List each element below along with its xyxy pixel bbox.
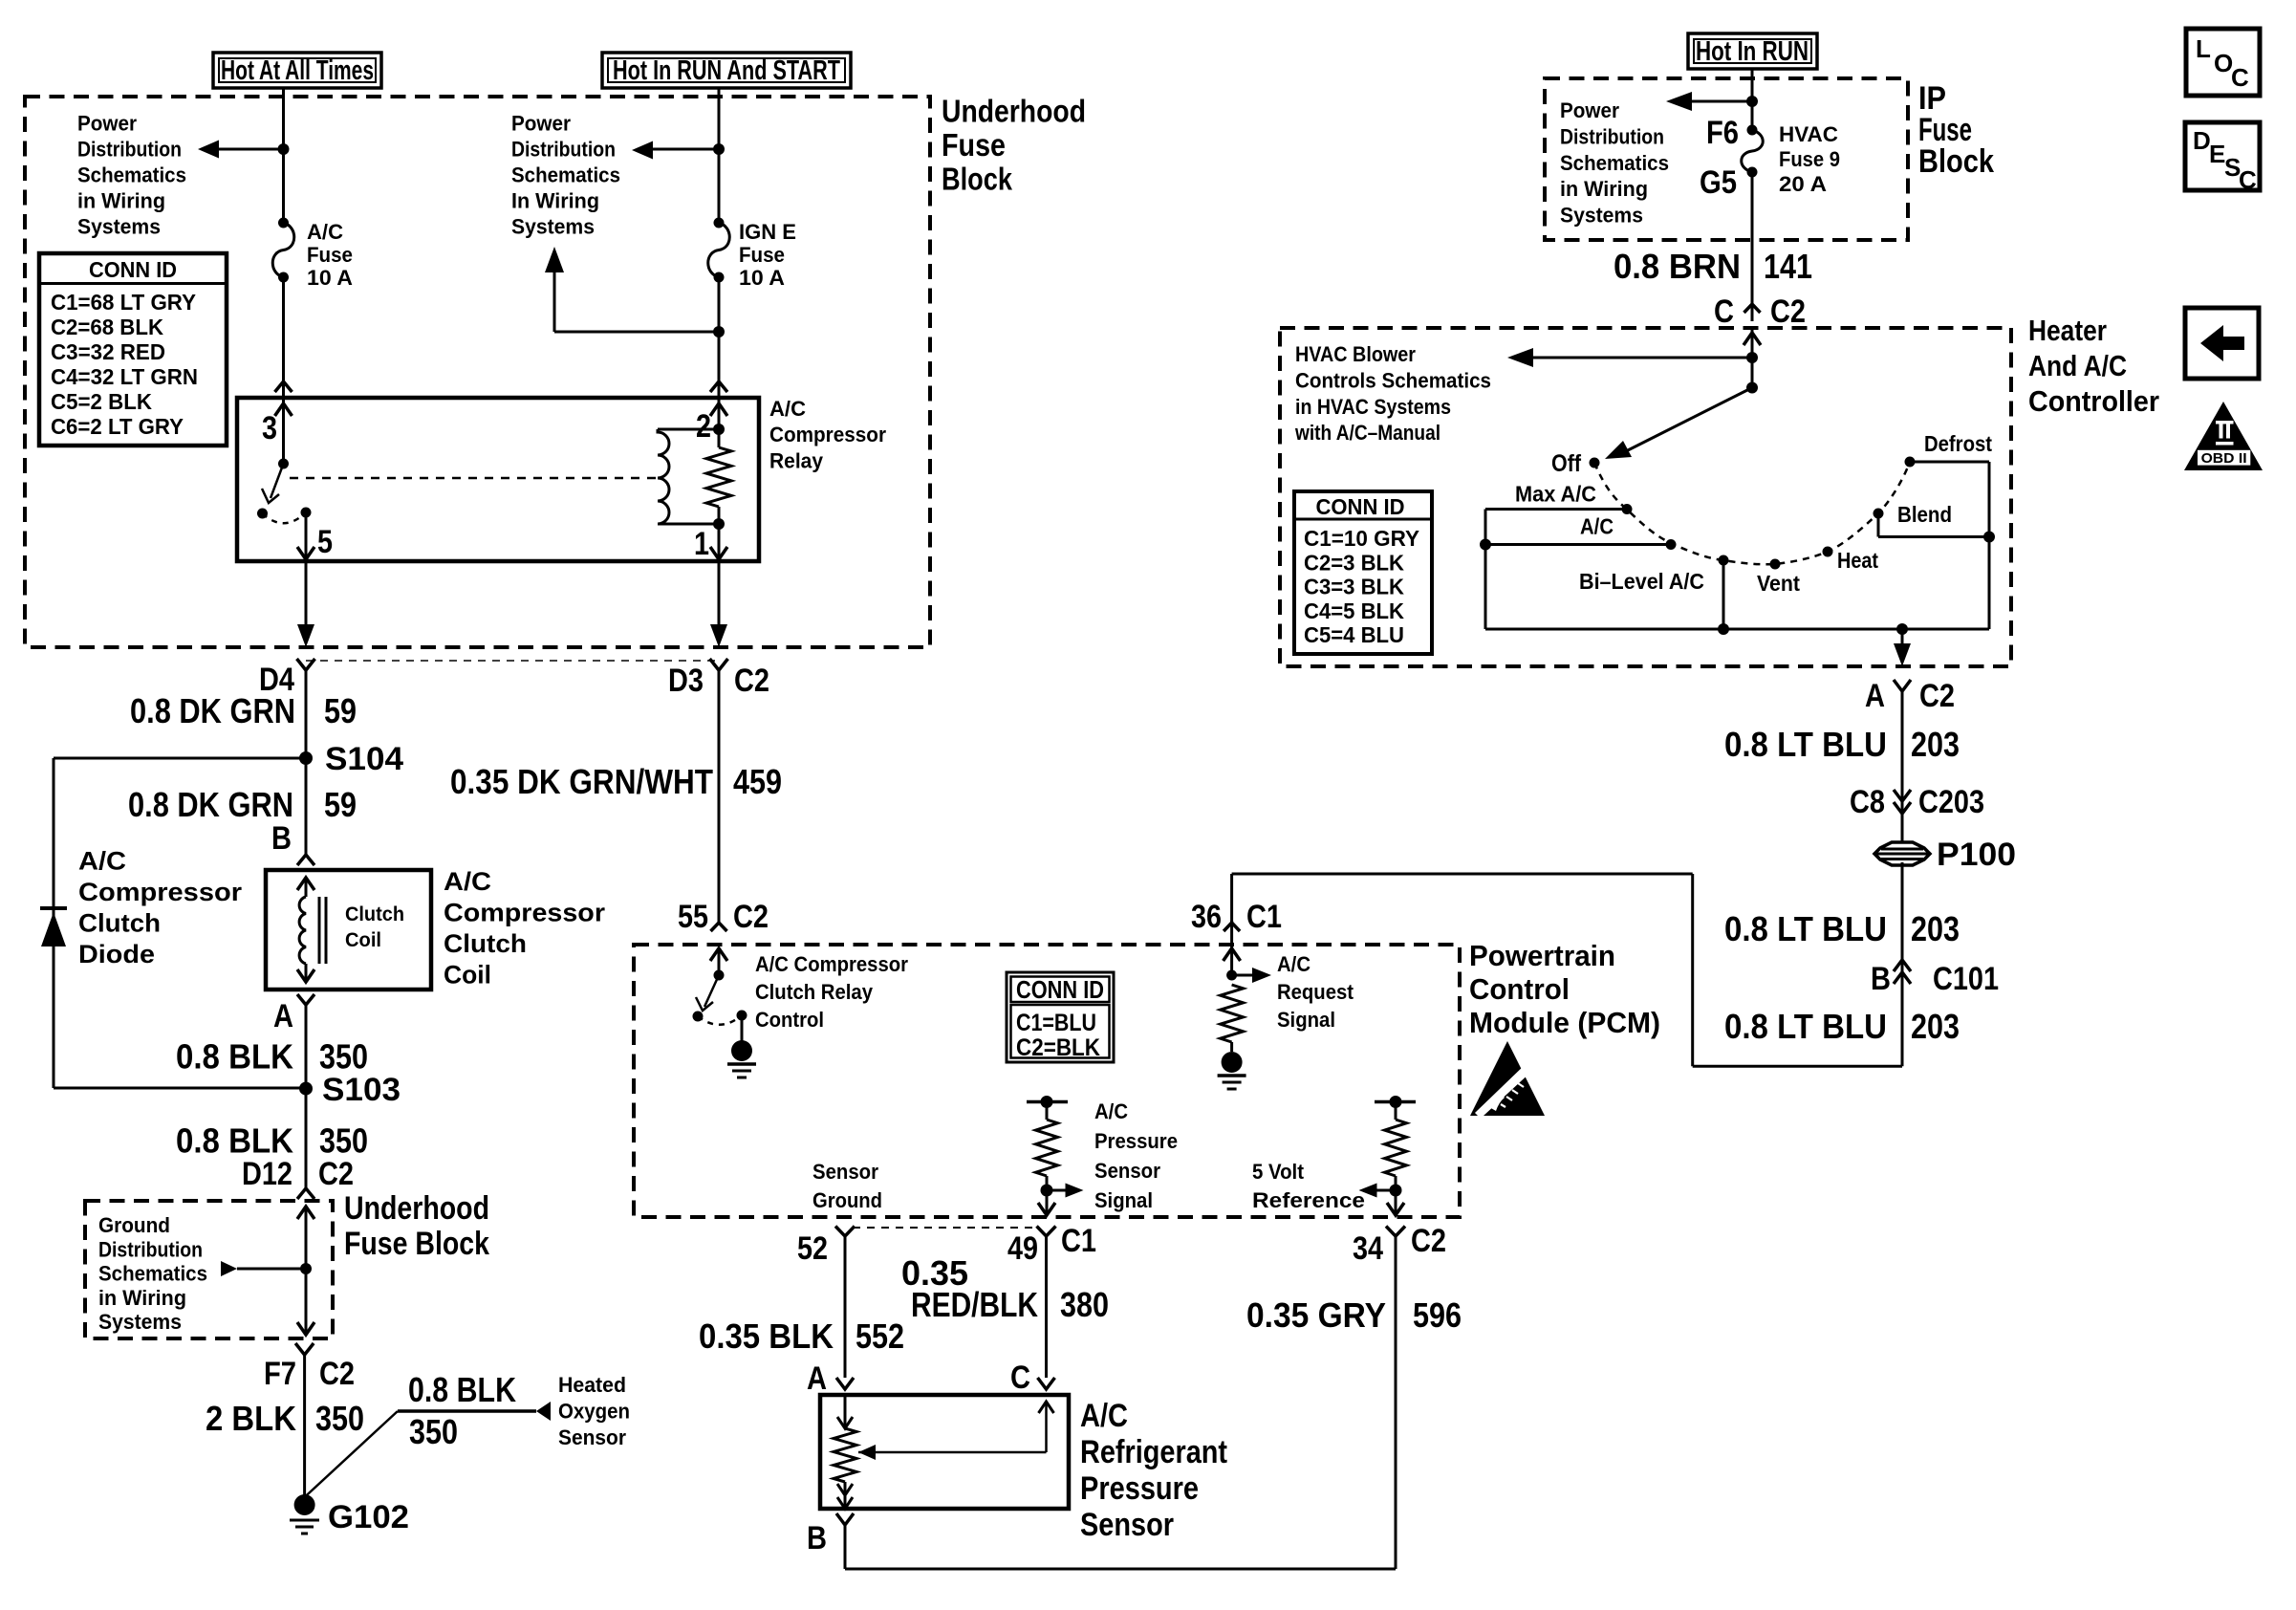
svg-text:10 A: 10 A bbox=[739, 266, 785, 290]
svg-text:C3=32 RED: C3=32 RED bbox=[51, 339, 165, 364]
svg-text:Block: Block bbox=[1918, 143, 1994, 180]
svg-text:Control: Control bbox=[1469, 972, 1570, 1006]
svg-text:Defrost: Defrost bbox=[1924, 431, 1992, 456]
svg-text:Clutch: Clutch bbox=[444, 929, 527, 958]
svg-text:Clutch: Clutch bbox=[345, 903, 404, 925]
svg-text:Vent: Vent bbox=[1757, 571, 1800, 596]
svg-text:Control: Control bbox=[755, 1008, 824, 1032]
svg-text:Pressure: Pressure bbox=[1080, 1470, 1199, 1507]
svg-text:59: 59 bbox=[324, 785, 357, 824]
svg-text:C2: C2 bbox=[318, 1156, 354, 1192]
svg-text:B: B bbox=[807, 1520, 827, 1556]
svg-text:CONN ID: CONN ID bbox=[1316, 494, 1405, 519]
svg-text:Systems: Systems bbox=[77, 215, 161, 239]
svg-text:459: 459 bbox=[733, 762, 782, 801]
svg-text:Schematics: Schematics bbox=[511, 163, 620, 187]
svg-text:L: L bbox=[2196, 34, 2211, 63]
svg-text:Distribution: Distribution bbox=[98, 1237, 203, 1261]
svg-text:Heated: Heated bbox=[558, 1373, 626, 1397]
svg-text:Coil: Coil bbox=[345, 929, 381, 951]
svg-text:B: B bbox=[1871, 961, 1891, 997]
svg-text:Schematics: Schematics bbox=[1560, 151, 1669, 175]
svg-text:Clutch: Clutch bbox=[78, 909, 161, 938]
svg-text:C1=68 LT GRY: C1=68 LT GRY bbox=[51, 290, 196, 315]
svg-text:Block: Block bbox=[942, 162, 1013, 197]
svg-text:C6=2 LT GRY: C6=2 LT GRY bbox=[51, 414, 184, 439]
svg-text:RED/BLK: RED/BLK bbox=[911, 1285, 1038, 1324]
svg-text:in Wiring: in Wiring bbox=[77, 189, 165, 213]
svg-text:C5=2 BLK: C5=2 BLK bbox=[51, 389, 152, 414]
svg-text:Fuse: Fuse bbox=[739, 243, 785, 267]
svg-text:OBD II: OBD II bbox=[2201, 450, 2247, 467]
svg-text:C8: C8 bbox=[1850, 784, 1885, 820]
svg-text:A/C: A/C bbox=[444, 867, 491, 896]
svg-text:Fuse 9: Fuse 9 bbox=[1779, 147, 1840, 171]
svg-text:Fuse: Fuse bbox=[942, 127, 1006, 163]
svg-text:In Wiring: In Wiring bbox=[511, 189, 599, 213]
svg-text:Underhood: Underhood bbox=[942, 94, 1086, 129]
svg-text:A/C: A/C bbox=[769, 397, 806, 421]
svg-text:C1: C1 bbox=[1246, 899, 1282, 935]
svg-text:Compressor: Compressor bbox=[769, 423, 886, 446]
svg-text:20 A: 20 A bbox=[1779, 172, 1827, 196]
svg-text:G5: G5 bbox=[1700, 164, 1737, 201]
svg-text:C: C bbox=[1714, 294, 1734, 330]
svg-text:52: 52 bbox=[797, 1230, 828, 1267]
svg-text:2: 2 bbox=[696, 408, 711, 445]
svg-text:0.8 DK GRN: 0.8 DK GRN bbox=[128, 785, 293, 824]
svg-text:0.8 BLK: 0.8 BLK bbox=[176, 1037, 293, 1077]
svg-text:in Wiring: in Wiring bbox=[98, 1286, 186, 1310]
svg-text:A/C: A/C bbox=[1080, 1398, 1128, 1434]
svg-text:D3: D3 bbox=[668, 663, 704, 699]
svg-text:Schematics: Schematics bbox=[98, 1262, 207, 1286]
svg-text:Coil: Coil bbox=[444, 961, 491, 990]
svg-text:HVAC: HVAC bbox=[1779, 122, 1838, 146]
svg-text:552: 552 bbox=[856, 1316, 904, 1356]
svg-text:Reference: Reference bbox=[1252, 1188, 1365, 1212]
svg-text:D12: D12 bbox=[242, 1156, 292, 1192]
svg-text:A: A bbox=[807, 1360, 827, 1397]
svg-text:A/C Compressor: A/C Compressor bbox=[755, 952, 908, 976]
svg-text:E: E bbox=[2209, 140, 2225, 168]
svg-text:Clutch Relay: Clutch Relay bbox=[755, 980, 874, 1004]
svg-text:Hot At All Times: Hot At All Times bbox=[221, 55, 374, 86]
svg-text:49: 49 bbox=[1007, 1230, 1038, 1267]
svg-text:G102: G102 bbox=[328, 1499, 409, 1535]
svg-text:C203: C203 bbox=[1918, 784, 1984, 820]
svg-text:C4=32 LT GRN: C4=32 LT GRN bbox=[51, 364, 198, 389]
svg-text:0.8 BLK: 0.8 BLK bbox=[408, 1370, 516, 1409]
svg-text:Ground: Ground bbox=[812, 1188, 882, 1212]
svg-text:0.35 BLK: 0.35 BLK bbox=[699, 1316, 834, 1356]
svg-text:0.8 LT BLU: 0.8 LT BLU bbox=[1724, 725, 1887, 764]
svg-text:Blend: Blend bbox=[1897, 502, 1952, 527]
svg-text:380: 380 bbox=[1060, 1285, 1109, 1324]
svg-text:CONN ID: CONN ID bbox=[1016, 975, 1104, 1004]
svg-text:Ground: Ground bbox=[98, 1213, 170, 1237]
svg-text:S103: S103 bbox=[322, 1072, 401, 1108]
svg-text:Fuse: Fuse bbox=[307, 243, 353, 267]
svg-text:Fuse Block: Fuse Block bbox=[344, 1226, 489, 1262]
svg-text:C2=3 BLK: C2=3 BLK bbox=[1304, 550, 1404, 575]
svg-text:F7: F7 bbox=[264, 1356, 296, 1392]
svg-text:P100: P100 bbox=[1937, 837, 2016, 873]
svg-text:A/C: A/C bbox=[78, 847, 126, 876]
svg-text:C1=10 GRY: C1=10 GRY bbox=[1304, 526, 1419, 551]
svg-text:0.35 DK GRN/WHT: 0.35 DK GRN/WHT bbox=[450, 762, 713, 801]
svg-text:5: 5 bbox=[317, 524, 333, 560]
svg-text:CONN ID: CONN ID bbox=[89, 257, 177, 282]
svg-text:D: D bbox=[2193, 126, 2211, 155]
svg-text:C2: C2 bbox=[1770, 294, 1806, 330]
svg-text:Sensor: Sensor bbox=[1080, 1507, 1174, 1543]
svg-text:C2: C2 bbox=[734, 663, 769, 699]
svg-text:Systems: Systems bbox=[1560, 204, 1643, 228]
svg-text:Distribution: Distribution bbox=[77, 138, 182, 162]
svg-text:B: B bbox=[271, 820, 292, 857]
svg-text:350: 350 bbox=[315, 1399, 364, 1438]
svg-text:in HVAC Systems: in HVAC Systems bbox=[1295, 395, 1451, 419]
svg-text:0.8 DK GRN: 0.8 DK GRN bbox=[130, 691, 295, 730]
svg-text:1: 1 bbox=[694, 526, 709, 562]
svg-text:Distribution: Distribution bbox=[511, 138, 616, 162]
svg-text:C2: C2 bbox=[1411, 1223, 1446, 1259]
svg-text:Systems: Systems bbox=[98, 1310, 182, 1334]
svg-text:Pressure: Pressure bbox=[1094, 1129, 1178, 1153]
svg-text:F6: F6 bbox=[1706, 115, 1739, 151]
svg-text:IGN E: IGN E bbox=[739, 220, 796, 244]
svg-text:203: 203 bbox=[1911, 1007, 1960, 1046]
svg-text:141: 141 bbox=[1764, 247, 1812, 286]
svg-text:C: C bbox=[1010, 1360, 1030, 1396]
svg-text:C2=BLK: C2=BLK bbox=[1016, 1034, 1100, 1061]
svg-text:Schematics: Schematics bbox=[77, 163, 186, 187]
svg-text:Request: Request bbox=[1277, 980, 1354, 1004]
svg-text:A: A bbox=[1865, 678, 1885, 714]
svg-text:C1=BLU: C1=BLU bbox=[1016, 1010, 1096, 1036]
svg-text:Controller: Controller bbox=[2028, 384, 2159, 418]
svg-text:Sensor: Sensor bbox=[1094, 1159, 1160, 1183]
svg-text:Signal: Signal bbox=[1277, 1008, 1335, 1032]
svg-text:Sensor: Sensor bbox=[558, 1425, 626, 1449]
svg-text:C3=3 BLK: C3=3 BLK bbox=[1304, 575, 1404, 599]
svg-text:Module (PCM): Module (PCM) bbox=[1469, 1006, 1660, 1039]
svg-text:in Wiring: in Wiring bbox=[1560, 177, 1648, 201]
svg-text:Power: Power bbox=[77, 112, 137, 136]
svg-text:350: 350 bbox=[319, 1121, 368, 1161]
svg-text:C5=4 BLU: C5=4 BLU bbox=[1304, 622, 1404, 647]
svg-text:5 Volt: 5 Volt bbox=[1252, 1160, 1305, 1184]
svg-text:C4=5 BLK: C4=5 BLK bbox=[1304, 598, 1404, 623]
svg-text:0.8 LT BLU: 0.8 LT BLU bbox=[1724, 909, 1887, 948]
svg-text:0.8 BLK: 0.8 BLK bbox=[176, 1121, 293, 1161]
svg-text:203: 203 bbox=[1911, 725, 1960, 764]
svg-text:A/C: A/C bbox=[1094, 1099, 1128, 1123]
svg-text:Bi–Level A/C: Bi–Level A/C bbox=[1579, 569, 1704, 594]
svg-text:A/C: A/C bbox=[307, 220, 343, 244]
svg-text:Hot In RUN: Hot In RUN bbox=[1696, 36, 1809, 67]
svg-text:2 BLK: 2 BLK bbox=[206, 1399, 296, 1438]
svg-text:C101: C101 bbox=[1933, 961, 1999, 997]
svg-text:HVAC Blower: HVAC Blower bbox=[1295, 342, 1416, 366]
svg-text:with A/C–Manual: with A/C–Manual bbox=[1294, 421, 1440, 445]
svg-text:A: A bbox=[273, 998, 293, 1034]
svg-text:36: 36 bbox=[1191, 899, 1222, 935]
svg-text:A/C: A/C bbox=[1277, 952, 1310, 976]
svg-text:350: 350 bbox=[319, 1037, 368, 1077]
svg-text:C: C bbox=[2231, 63, 2249, 92]
svg-text:0.8 BRN: 0.8 BRN bbox=[1614, 247, 1741, 286]
svg-text:Hot In RUN And START: Hot In RUN And START bbox=[613, 55, 840, 86]
svg-text:34: 34 bbox=[1353, 1230, 1383, 1267]
svg-text:Systems: Systems bbox=[511, 215, 595, 239]
svg-text:0.35 GRY: 0.35 GRY bbox=[1246, 1295, 1386, 1335]
svg-text:C2=68 BLK: C2=68 BLK bbox=[51, 315, 163, 339]
svg-text:C2: C2 bbox=[319, 1356, 355, 1392]
svg-text:596: 596 bbox=[1413, 1295, 1462, 1335]
svg-text:Diode: Diode bbox=[78, 940, 155, 968]
svg-text:Heater: Heater bbox=[2028, 314, 2107, 347]
svg-text:Powertrain: Powertrain bbox=[1469, 939, 1615, 972]
svg-text:350: 350 bbox=[409, 1412, 458, 1451]
svg-text:10 A: 10 A bbox=[307, 266, 353, 290]
svg-text:55: 55 bbox=[678, 899, 708, 935]
svg-text:203: 203 bbox=[1911, 909, 1960, 948]
svg-text:Refrigerant: Refrigerant bbox=[1080, 1434, 1227, 1470]
svg-text:Compressor: Compressor bbox=[444, 899, 606, 927]
svg-text:Controls Schematics: Controls Schematics bbox=[1295, 368, 1491, 392]
svg-text:Off: Off bbox=[1551, 450, 1582, 477]
svg-text:A/C: A/C bbox=[1580, 514, 1614, 539]
svg-text:And A/C: And A/C bbox=[2028, 349, 2127, 382]
svg-text:C1: C1 bbox=[1061, 1223, 1096, 1259]
svg-text:Heat: Heat bbox=[1837, 548, 1878, 573]
svg-text:S104: S104 bbox=[325, 741, 403, 777]
svg-text:Underhood: Underhood bbox=[344, 1190, 489, 1227]
svg-text:Signal: Signal bbox=[1094, 1188, 1153, 1212]
svg-text:C2: C2 bbox=[733, 899, 769, 935]
svg-text:Relay: Relay bbox=[769, 449, 824, 473]
svg-text:Max A/C: Max A/C bbox=[1515, 482, 1596, 507]
svg-text:59: 59 bbox=[324, 691, 357, 730]
svg-text:C: C bbox=[2239, 165, 2257, 194]
svg-text:Compressor: Compressor bbox=[78, 878, 243, 906]
svg-text:Distribution: Distribution bbox=[1560, 124, 1664, 148]
svg-text:Power: Power bbox=[511, 112, 571, 136]
svg-text:Power: Power bbox=[1560, 98, 1619, 122]
svg-text:Sensor: Sensor bbox=[812, 1160, 878, 1184]
svg-text:0.8 LT BLU: 0.8 LT BLU bbox=[1724, 1007, 1887, 1046]
svg-text:C2: C2 bbox=[1919, 678, 1955, 714]
svg-text:Oxygen: Oxygen bbox=[558, 1399, 630, 1423]
